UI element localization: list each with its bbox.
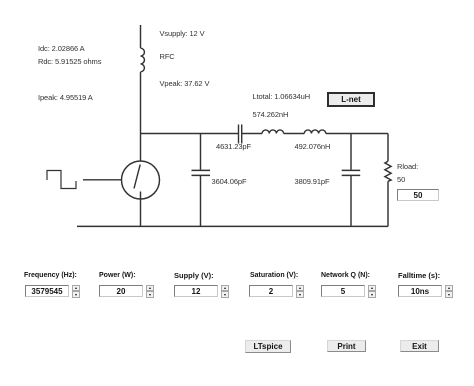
spinbox Power value [99,285,143,298]
label Ipeak value [38,93,93,102]
spinner Frequency [72,285,80,299]
wire drive to switch [83,179,122,181]
spinbox Frequency value [25,285,69,298]
wire shunt C1 bottom lead [200,176,202,226]
capacitor C2 3809.91pF plates [342,170,361,175]
spinner Falltime [445,285,453,299]
label RFC [160,52,175,61]
button Print [327,340,366,352]
label Network Q (N): [321,271,370,280]
spinner Network Q [368,285,376,299]
label L2 value 492.076nH [295,142,331,151]
label Saturation (V): [250,271,298,280]
inductor RFC [141,48,145,72]
label Vsupply [160,29,205,38]
label L1 value 574.262nH [253,110,289,119]
spinbox Falltime value [398,285,442,298]
wire top rail left segment [141,133,239,135]
wire node to switch [140,134,142,162]
label Rload [397,162,418,171]
wire RFC to top node [140,72,142,134]
label C-series value 4631.23pF [216,142,251,151]
wire shunt C2 bottom lead [350,176,352,226]
resistor Rload zigzag [385,161,391,181]
wire shunt C1 top lead [200,134,202,170]
label Rload value 50 [397,175,405,184]
label Supply (V): [174,271,214,280]
label C2 value 3809.91pF [295,177,330,186]
label Falltime (s): [398,271,440,280]
spinbox Network Q value [321,285,365,298]
wire Vsupply feed (top vertical) [140,25,142,48]
capacitor C-series 4631.23pF plates [239,125,242,144]
spinner Supply [221,285,229,299]
wire shunt C2 top lead [350,134,352,170]
spinbox Saturation value [249,285,293,298]
label Power (W): [99,271,136,280]
textbox Rload input [397,189,439,201]
switch lever [134,165,140,189]
switch circle Q1 [122,161,160,199]
wire ground rail [77,225,388,227]
wire L1 to L2 [284,133,305,135]
capacitor C1 3604.06pF plates [192,170,211,175]
spinner Saturation [296,285,304,299]
wire right rail top [387,134,389,162]
wire switch bottom to ground rail [140,192,142,227]
label Rdc value [38,57,101,66]
label Idc value [38,44,85,53]
wire right rail bottom [387,181,389,226]
spinbox Supply value [174,285,218,298]
square wave drive glyph [47,171,76,189]
inductor L1 574.262nH [262,130,283,134]
label Vpeak [160,79,210,88]
label Ltotal [253,92,311,101]
wire cap to L1 [242,133,262,135]
button L-net [327,92,375,107]
button LTspice [245,340,291,353]
label Frequency (Hz): [24,271,77,280]
button Exit [400,340,439,352]
label C1 value 3604.06pF [212,177,247,186]
inductor L2 492.076nH [304,130,325,134]
spinner Power [146,285,154,299]
wire top rail right segment [326,133,388,135]
